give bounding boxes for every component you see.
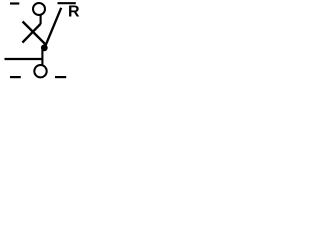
junction (pivot node): [41, 44, 48, 51]
terminal circle (top contact): [33, 3, 45, 15]
wire (clipped stub, bottom-left): [10, 76, 21, 78]
wire (lead from top contact): [40, 16, 42, 25]
wire (overline above label R): [58, 2, 76, 4]
terminal circle (bottom contact): [34, 65, 46, 77]
wire (horizontal, to the left): [5, 58, 44, 60]
wire (clipped stub, top-left): [10, 2, 19, 4]
svg-text:R: R: [68, 4, 80, 21]
switch blade R (open contact arm): [45, 8, 62, 48]
wire (clipped stub, bottom-right): [55, 76, 66, 78]
wire (junction to bottom terminal): [41, 50, 43, 65]
switch actuator stroke (X, \ line): [23, 22, 47, 46]
switch actuator stroke (X, / line): [22, 24, 40, 43]
